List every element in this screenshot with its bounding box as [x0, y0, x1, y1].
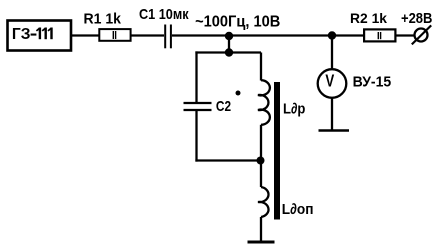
- svg-text:R2 1k: R2 1k: [350, 10, 387, 26]
- wire node A down to loop top: [228, 36, 230, 53]
- resistor R2 power-rating marks: [377, 32, 379, 39]
- node D junction dot: [328, 31, 336, 39]
- wire R1 to C1: [131, 34, 164, 36]
- core bar: [274, 82, 280, 220]
- terminal +28В: [415, 29, 428, 42]
- wire generator to R1: [71, 34, 99, 36]
- node B junction dot on loop top: [225, 48, 233, 56]
- svg-text:V: V: [325, 72, 334, 91]
- wire R2 to terminal: [396, 34, 415, 36]
- wire loop bottom: [195, 159, 260, 161]
- inductor Lдоп winding: [258, 187, 269, 217]
- capacitor C1: [164, 25, 166, 49]
- ground (bottom): [248, 241, 275, 244]
- wire node D to voltmeter: [331, 36, 333, 71]
- node C junction dot: [257, 157, 265, 165]
- wire Ldr to Ldop: [260, 125, 262, 187]
- wire loop left lower: [195, 110, 197, 162]
- svg-text:L∂оп: L∂оп: [282, 202, 314, 219]
- svg-text:С1 10мк: С1 10мк: [139, 6, 189, 22]
- node A junction dot: [225, 32, 233, 40]
- generator G1 box ГЗ-111: [8, 21, 72, 51]
- svg-text:ВУ-15: ВУ-15: [353, 74, 392, 90]
- wire Ldop to ground: [260, 217, 262, 242]
- resistor R1 power-rating marks: [112, 31, 114, 39]
- svg-text:С2: С2: [216, 98, 231, 114]
- voltmeter PV1: [318, 69, 347, 98]
- svg-text:R1 1k: R1 1k: [84, 11, 122, 28]
- resistor R1: [99, 29, 130, 41]
- resistor R2: [364, 29, 395, 41]
- inductor Lдр winding: [258, 80, 270, 125]
- wire C1 to R2: [172, 34, 364, 36]
- svg-text:ГЗ: ГЗ: [12, 26, 31, 43]
- wire voltmeter to ground: [331, 97, 333, 131]
- wire loop top right down to Ldr: [260, 53, 262, 81]
- wire loop left upper: [195, 51, 197, 103]
- svg-text:+28В: +28В: [401, 9, 432, 26]
- ground (voltmeter): [319, 129, 350, 131]
- wire loop top: [195, 51, 261, 53]
- svg-text:L∂р: L∂р: [283, 99, 305, 116]
- svg-text:~100Гц, 10В: ~100Гц, 10В: [195, 13, 280, 30]
- capacitor C2: [184, 102, 212, 104]
- winding polarity dot: [236, 91, 241, 96]
